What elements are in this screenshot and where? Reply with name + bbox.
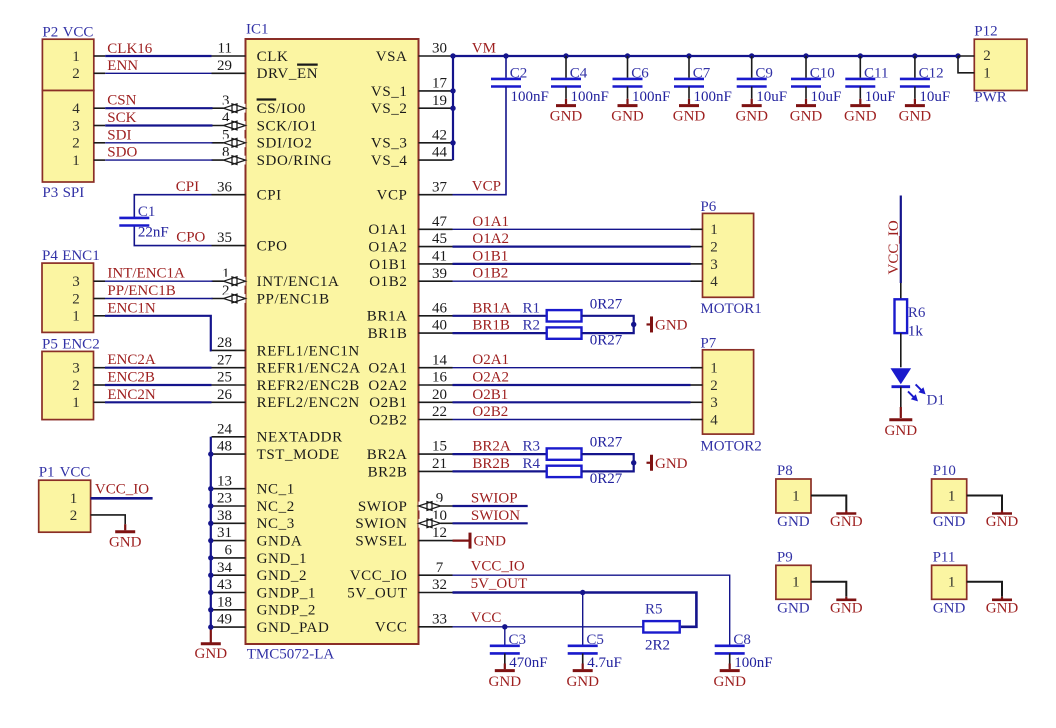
svg-text:21: 21: [432, 456, 447, 472]
svg-text:VS_2: VS_2: [371, 101, 408, 117]
svg-text:GND_2: GND_2: [257, 568, 308, 584]
svg-text:16: 16: [432, 370, 448, 386]
svg-text:O1A1: O1A1: [472, 214, 509, 230]
svg-text:O2A1: O2A1: [368, 361, 407, 377]
svg-text:ENC1N: ENC1N: [107, 300, 155, 316]
svg-text:1k: 1k: [908, 324, 924, 340]
svg-text:GND: GND: [899, 109, 932, 125]
svg-text:P6: P6: [700, 199, 716, 215]
svg-text:VS_4: VS_4: [371, 153, 408, 169]
svg-text:1: 1: [792, 575, 800, 591]
svg-text:INT/ENC1A: INT/ENC1A: [257, 274, 340, 290]
svg-text:BR2B: BR2B: [472, 456, 510, 472]
svg-text:GND: GND: [109, 534, 142, 550]
svg-text:20: 20: [432, 387, 447, 403]
svg-text:43: 43: [217, 577, 232, 593]
svg-text:17: 17: [432, 76, 448, 92]
svg-text:22: 22: [432, 404, 447, 420]
svg-text:2: 2: [72, 291, 80, 307]
svg-text:P9: P9: [777, 550, 793, 566]
svg-text:C4: C4: [570, 65, 588, 81]
svg-text:GND: GND: [830, 600, 863, 616]
svg-text:100nF: 100nF: [511, 89, 549, 105]
svg-text:SWION: SWION: [471, 508, 520, 524]
svg-text:P11: P11: [933, 550, 956, 566]
svg-text:R4: R4: [523, 456, 541, 472]
svg-text:O1B1: O1B1: [369, 257, 407, 273]
svg-text:18: 18: [217, 594, 232, 610]
svg-text:3: 3: [72, 361, 80, 377]
svg-text:REFL1/ENC1N: REFL1/ENC1N: [257, 343, 360, 359]
svg-text:O2A2: O2A2: [368, 378, 407, 394]
svg-text:BR2A: BR2A: [472, 439, 511, 455]
svg-text:SDO: SDO: [107, 145, 137, 161]
svg-text:1: 1: [983, 66, 991, 82]
svg-text:27: 27: [217, 352, 233, 368]
svg-text:3: 3: [72, 274, 80, 290]
svg-text:D1: D1: [927, 393, 945, 409]
svg-text:NEXTADDR: NEXTADDR: [257, 430, 343, 446]
svg-text:O1B2: O1B2: [472, 266, 508, 282]
svg-text:IC1: IC1: [246, 22, 269, 38]
svg-text:C3: C3: [509, 632, 527, 648]
svg-text:30: 30: [432, 41, 447, 57]
svg-text:GND: GND: [986, 600, 1019, 616]
svg-text:2: 2: [710, 240, 718, 256]
svg-text:CPO: CPO: [257, 239, 288, 255]
svg-text:NC_3: NC_3: [257, 516, 295, 532]
svg-text:CLK: CLK: [257, 49, 289, 65]
svg-text:GND: GND: [195, 646, 228, 662]
svg-text:GND: GND: [986, 514, 1019, 530]
svg-text:GND: GND: [566, 674, 599, 690]
svg-text:O1A2: O1A2: [368, 240, 407, 256]
svg-text:ENC1: ENC1: [62, 248, 99, 264]
svg-text:CPI: CPI: [257, 188, 282, 204]
svg-text:CPO: CPO: [176, 230, 205, 246]
svg-text:4: 4: [72, 101, 80, 117]
svg-text:37: 37: [432, 179, 448, 195]
svg-text:GND: GND: [673, 109, 706, 125]
svg-text:14: 14: [432, 352, 448, 368]
svg-text:O2B1: O2B1: [369, 395, 407, 411]
svg-text:2: 2: [70, 508, 78, 524]
svg-text:P8: P8: [777, 463, 793, 479]
svg-text:1: 1: [72, 49, 80, 65]
svg-text:P5: P5: [42, 337, 58, 353]
svg-text:36: 36: [217, 179, 233, 195]
svg-text:0R27: 0R27: [590, 333, 623, 349]
svg-text:BR2B: BR2B: [368, 464, 408, 480]
svg-text:MOTOR1: MOTOR1: [700, 301, 761, 317]
svg-text:100nF: 100nF: [571, 89, 609, 105]
svg-text:11: 11: [218, 41, 232, 57]
svg-text:PP/ENC1B: PP/ENC1B: [257, 291, 330, 307]
svg-text:19: 19: [432, 93, 447, 109]
svg-text:C1: C1: [138, 204, 156, 220]
svg-text:33: 33: [432, 611, 447, 627]
svg-text:GND: GND: [830, 514, 863, 530]
svg-text:SWIOP: SWIOP: [358, 499, 408, 515]
svg-text:SDI: SDI: [107, 127, 131, 143]
svg-text:O2A2: O2A2: [472, 370, 509, 386]
svg-text:O1B1: O1B1: [472, 248, 508, 264]
svg-text:C6: C6: [631, 65, 649, 81]
svg-text:P12: P12: [974, 24, 997, 40]
svg-text:6: 6: [225, 543, 233, 559]
svg-text:100nF: 100nF: [632, 89, 670, 105]
svg-text:R6: R6: [908, 305, 926, 321]
svg-text:CS/IO0: CS/IO0: [257, 101, 306, 117]
svg-text:GND: GND: [790, 109, 823, 125]
svg-text:CSN: CSN: [107, 93, 136, 109]
svg-text:38: 38: [217, 508, 232, 524]
svg-text:VSA: VSA: [376, 49, 408, 65]
svg-text:R5: R5: [645, 601, 663, 617]
svg-text:2: 2: [983, 48, 991, 64]
svg-text:45: 45: [432, 231, 447, 247]
svg-text:GND: GND: [550, 109, 583, 125]
svg-text:42: 42: [432, 127, 447, 143]
svg-text:2R2: 2R2: [645, 638, 670, 654]
svg-text:TMC5072-LA: TMC5072-LA: [247, 647, 335, 663]
svg-text:VCC_IO: VCC_IO: [95, 482, 149, 498]
svg-text:BR1A: BR1A: [472, 300, 511, 316]
svg-text:ENC2B: ENC2B: [107, 370, 155, 386]
svg-text:C9: C9: [755, 65, 773, 81]
svg-text:SWIOP: SWIOP: [471, 491, 518, 507]
svg-text:SWION: SWION: [355, 516, 407, 532]
svg-text:SDO/RING: SDO/RING: [257, 153, 333, 169]
svg-text:VCC_IO: VCC_IO: [350, 568, 408, 584]
svg-text:P4: P4: [42, 248, 58, 264]
svg-text:O1A1: O1A1: [368, 222, 407, 238]
svg-text:REFR1/ENC2A: REFR1/ENC2A: [257, 361, 361, 377]
svg-text:BR1B: BR1B: [368, 326, 408, 342]
svg-text:GND: GND: [611, 109, 644, 125]
svg-text:1: 1: [948, 488, 956, 504]
svg-text:O2B2: O2B2: [369, 412, 407, 428]
svg-text:4: 4: [710, 274, 718, 290]
svg-text:GNDA: GNDA: [257, 534, 303, 550]
svg-text:35: 35: [217, 230, 232, 246]
svg-text:100nF: 100nF: [734, 655, 772, 671]
svg-text:VS_3: VS_3: [371, 136, 408, 152]
svg-text:1: 1: [72, 153, 80, 169]
svg-text:CLK16: CLK16: [107, 41, 153, 57]
svg-text:PP/ENC1B: PP/ENC1B: [107, 283, 175, 299]
svg-text:VCC: VCC: [375, 620, 408, 636]
svg-text:GNDP_2: GNDP_2: [257, 603, 316, 619]
svg-text:44: 44: [432, 145, 448, 161]
svg-text:SDI/IO2: SDI/IO2: [257, 136, 313, 152]
svg-text:470nF: 470nF: [509, 655, 547, 671]
svg-text:3: 3: [72, 118, 80, 134]
svg-text:P7: P7: [700, 335, 716, 351]
svg-text:INT/ENC1A: INT/ENC1A: [107, 266, 185, 282]
svg-text:48: 48: [217, 439, 232, 455]
svg-text:1: 1: [72, 395, 80, 411]
svg-text:ENC2A: ENC2A: [107, 352, 155, 368]
svg-text:3: 3: [710, 395, 718, 411]
svg-text:P3: P3: [42, 185, 58, 201]
svg-text:5V_OUT: 5V_OUT: [347, 585, 407, 601]
svg-text:29: 29: [217, 58, 232, 74]
svg-text:24: 24: [217, 421, 233, 437]
svg-text:47: 47: [432, 214, 448, 230]
svg-text:1: 1: [70, 491, 78, 507]
svg-text:P2: P2: [42, 25, 58, 41]
svg-text:NC_1: NC_1: [257, 482, 295, 498]
svg-text:10uF: 10uF: [756, 89, 787, 105]
svg-text:40: 40: [432, 318, 447, 334]
svg-text:2: 2: [710, 378, 718, 394]
svg-text:P10: P10: [933, 463, 956, 479]
svg-text:CPI: CPI: [176, 179, 199, 195]
svg-text:R3: R3: [523, 439, 541, 455]
svg-text:VCP: VCP: [472, 178, 501, 194]
svg-text:C7: C7: [693, 65, 711, 81]
svg-text:49: 49: [217, 612, 232, 628]
svg-text:25: 25: [217, 370, 232, 386]
svg-text:O1B2: O1B2: [369, 274, 407, 290]
svg-text:C2: C2: [510, 65, 528, 81]
svg-text:23: 23: [217, 491, 232, 507]
svg-text:100nF: 100nF: [694, 89, 732, 105]
svg-text:REFR2/ENC2B: REFR2/ENC2B: [257, 378, 360, 394]
svg-text:O2A1: O2A1: [472, 352, 509, 368]
svg-text:1: 1: [72, 309, 80, 325]
svg-text:31: 31: [217, 525, 232, 541]
svg-text:0R27: 0R27: [590, 435, 623, 451]
svg-text:ENC2: ENC2: [62, 337, 99, 353]
svg-text:O2B1: O2B1: [472, 387, 508, 403]
svg-text:26: 26: [217, 387, 233, 403]
svg-text:ENN: ENN: [107, 58, 138, 74]
svg-text:R1: R1: [523, 300, 541, 316]
svg-text:22nF: 22nF: [138, 225, 169, 241]
svg-text:GND: GND: [933, 600, 966, 616]
svg-text:GND_1: GND_1: [257, 551, 308, 567]
svg-text:GND: GND: [844, 109, 877, 125]
svg-text:7: 7: [436, 560, 444, 576]
svg-text:BR2A: BR2A: [367, 447, 408, 463]
svg-text:SCK/IO1: SCK/IO1: [257, 118, 318, 134]
svg-text:GND: GND: [777, 600, 810, 616]
svg-text:32: 32: [432, 577, 447, 593]
svg-text:34: 34: [217, 560, 233, 576]
svg-text:GND: GND: [474, 534, 507, 550]
svg-text:2: 2: [72, 136, 80, 152]
svg-text:1: 1: [792, 488, 800, 504]
svg-text:GNDP_1: GNDP_1: [257, 585, 316, 601]
svg-text:C8: C8: [733, 632, 751, 648]
svg-text:1: 1: [710, 222, 718, 238]
svg-text:46: 46: [432, 300, 448, 316]
svg-text:4: 4: [710, 412, 718, 428]
svg-text:0R27: 0R27: [590, 471, 623, 487]
svg-text:NC_2: NC_2: [257, 499, 295, 515]
svg-text:C11: C11: [864, 65, 888, 81]
svg-text:10uF: 10uF: [865, 89, 896, 105]
svg-text:O2B2: O2B2: [472, 404, 508, 420]
svg-text:P1: P1: [39, 465, 55, 481]
svg-text:39: 39: [432, 266, 447, 282]
svg-text:ENC2N: ENC2N: [107, 387, 155, 403]
svg-text:SPI: SPI: [63, 185, 85, 201]
svg-text:PWR: PWR: [974, 90, 1007, 106]
svg-text:5V_OUT: 5V_OUT: [471, 576, 528, 592]
svg-text:GND: GND: [655, 456, 688, 472]
svg-text:VCC: VCC: [63, 25, 94, 41]
svg-text:GND: GND: [735, 109, 768, 125]
svg-text:REFL2/ENC2N: REFL2/ENC2N: [257, 395, 360, 411]
svg-text:GND: GND: [655, 317, 688, 333]
svg-text:SWSEL: SWSEL: [355, 534, 407, 550]
svg-text:C12: C12: [919, 65, 944, 81]
svg-text:GND: GND: [777, 514, 810, 530]
svg-text:O1A2: O1A2: [472, 231, 509, 247]
svg-text:R2: R2: [523, 318, 541, 334]
svg-text:VM: VM: [472, 41, 496, 57]
svg-text:MOTOR2: MOTOR2: [700, 439, 761, 455]
svg-text:VCC_IO: VCC_IO: [886, 220, 902, 274]
svg-text:13: 13: [217, 473, 232, 489]
svg-text:10uF: 10uF: [919, 89, 950, 105]
svg-text:41: 41: [432, 249, 447, 265]
svg-text:GND: GND: [885, 423, 918, 439]
svg-text:VCP: VCP: [377, 188, 408, 204]
svg-text:VS_1: VS_1: [371, 84, 408, 100]
svg-text:TST_MODE: TST_MODE: [257, 447, 340, 463]
svg-text:3: 3: [710, 257, 718, 273]
svg-text:10uF: 10uF: [811, 89, 842, 105]
svg-text:12: 12: [432, 525, 447, 541]
svg-text:4.7uF: 4.7uF: [587, 655, 622, 671]
svg-text:DRV_EN: DRV_EN: [257, 66, 319, 82]
svg-text:VCC: VCC: [60, 465, 91, 481]
svg-text:VCC_IO: VCC_IO: [471, 559, 525, 575]
svg-text:C5: C5: [586, 632, 604, 648]
svg-text:BR1B: BR1B: [472, 318, 510, 334]
svg-text:SCK: SCK: [107, 110, 136, 126]
svg-text:VCC: VCC: [471, 610, 502, 626]
svg-text:C10: C10: [810, 65, 835, 81]
svg-text:1: 1: [710, 361, 718, 377]
svg-text:GND: GND: [489, 674, 522, 690]
svg-text:GND: GND: [713, 674, 746, 690]
svg-text:GND: GND: [933, 514, 966, 530]
svg-text:28: 28: [217, 335, 232, 351]
svg-text:0R27: 0R27: [590, 296, 623, 312]
svg-text:BR1A: BR1A: [367, 309, 408, 325]
svg-text:GND_PAD: GND_PAD: [257, 620, 330, 636]
svg-text:2: 2: [72, 378, 80, 394]
svg-text:2: 2: [72, 66, 80, 82]
svg-text:15: 15: [432, 439, 447, 455]
svg-text:1: 1: [948, 575, 956, 591]
